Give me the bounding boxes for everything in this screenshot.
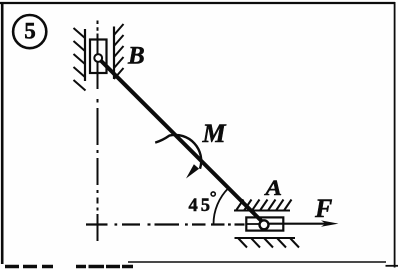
force F arrowhead — [321, 220, 339, 226]
slider A rectangle — [246, 217, 283, 230]
force F arrow line — [265, 223, 328, 225]
moment M arc — [155, 135, 201, 169]
vertical dash-dot center line — [97, 21, 99, 242]
wall B right hatching — [114, 24, 124, 79]
frame bottom line right — [386, 265, 398, 267]
horizontal dash-dot center line — [86, 223, 245, 225]
svg-text:5: 5 — [24, 19, 36, 44]
frame bottom dashes left — [5, 265, 133, 268]
pin B — [94, 54, 102, 62]
svg-text:F: F — [314, 194, 332, 223]
svg-text:45: 45 — [189, 196, 211, 216]
pin A — [260, 220, 269, 229]
moment M arrowhead — [186, 164, 199, 178]
guide A bottom line — [235, 237, 296, 239]
svg-text:B: B — [127, 42, 145, 69]
wall B right guide line — [113, 27, 115, 80]
problem number badge circle 5 — [13, 15, 46, 48]
wall B left guide line — [84, 29, 86, 81]
horizontal line inside slider A — [247, 223, 261, 225]
guide A top line — [234, 210, 290, 212]
rod AB — [98, 58, 264, 224]
svg-text:A: A — [263, 175, 282, 200]
wall B left hatching — [74, 28, 86, 91]
slider B rectangle — [90, 40, 107, 74]
guide A top hatching — [236, 200, 292, 211]
degree symbol — [211, 192, 215, 196]
frame left border — [1, 2, 4, 264]
45 degree angle arc — [214, 188, 229, 224]
svg-text:M: M — [202, 119, 227, 148]
frame right border — [394, 2, 396, 268]
frame top border — [0, 2, 395, 4]
frame bottom line middle — [128, 261, 386, 263]
guide A bottom hatching — [238, 238, 299, 248]
